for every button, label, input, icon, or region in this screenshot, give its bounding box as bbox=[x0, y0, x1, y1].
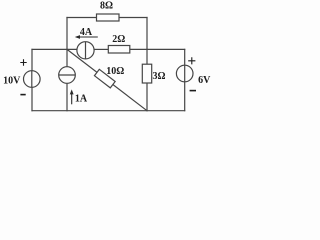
minus sign 6V bbox=[190, 90, 196, 92]
bar inside 10V source bbox=[31, 71, 33, 88]
arrow 4A bbox=[79, 36, 98, 38]
wire top left segment bbox=[67, 17, 97, 19]
svg-text:10Ω: 10Ω bbox=[106, 66, 124, 77]
wire bottom rail bbox=[32, 110, 185, 112]
source 6V bbox=[176, 65, 193, 82]
wire diagonal branch bbox=[67, 49, 147, 110]
wire 3 ohm branch upper bbox=[146, 49, 148, 64]
resistor 10ohm bbox=[94, 69, 115, 88]
wire top loop left vertical bbox=[66, 18, 68, 50]
plus sign 6V bbox=[188, 57, 195, 64]
wire 3 ohm branch lower bbox=[146, 83, 148, 111]
wire right vertical bbox=[184, 49, 186, 110]
source 1A bbox=[59, 67, 76, 84]
wire 1A branch lower bbox=[66, 83, 68, 110]
wire top right segment bbox=[119, 17, 147, 19]
wire middle rail right bbox=[130, 48, 185, 50]
arrow 1A bbox=[71, 93, 73, 104]
wire middle rail center bbox=[94, 48, 108, 50]
bar inside 4A source bbox=[85, 42, 87, 59]
source 4A bbox=[77, 42, 94, 59]
wire 1A branch upper bbox=[66, 49, 68, 66]
resistor 8ohm bbox=[97, 14, 120, 21]
wire middle rail left bbox=[32, 48, 77, 50]
resistor 2ohm bbox=[108, 46, 130, 54]
plus sign 10V bbox=[20, 59, 26, 65]
resistor 3ohm bbox=[142, 64, 151, 83]
svg-text:4A: 4A bbox=[80, 27, 93, 38]
minus sign 10V bbox=[20, 94, 25, 96]
source 10V bbox=[24, 71, 41, 88]
svg-text:2Ω: 2Ω bbox=[112, 34, 125, 45]
svg-text:1A: 1A bbox=[75, 94, 88, 105]
wire left vertical bbox=[31, 49, 33, 110]
svg-text:10V: 10V bbox=[3, 76, 21, 87]
svg-text:3Ω: 3Ω bbox=[152, 71, 165, 82]
wire top loop right vertical bbox=[146, 18, 148, 50]
bar inside 6V source bbox=[184, 65, 186, 82]
svg-text:8Ω: 8Ω bbox=[100, 1, 113, 12]
svg-text:6V: 6V bbox=[198, 75, 211, 86]
bar inside 1A source bbox=[59, 74, 76, 76]
